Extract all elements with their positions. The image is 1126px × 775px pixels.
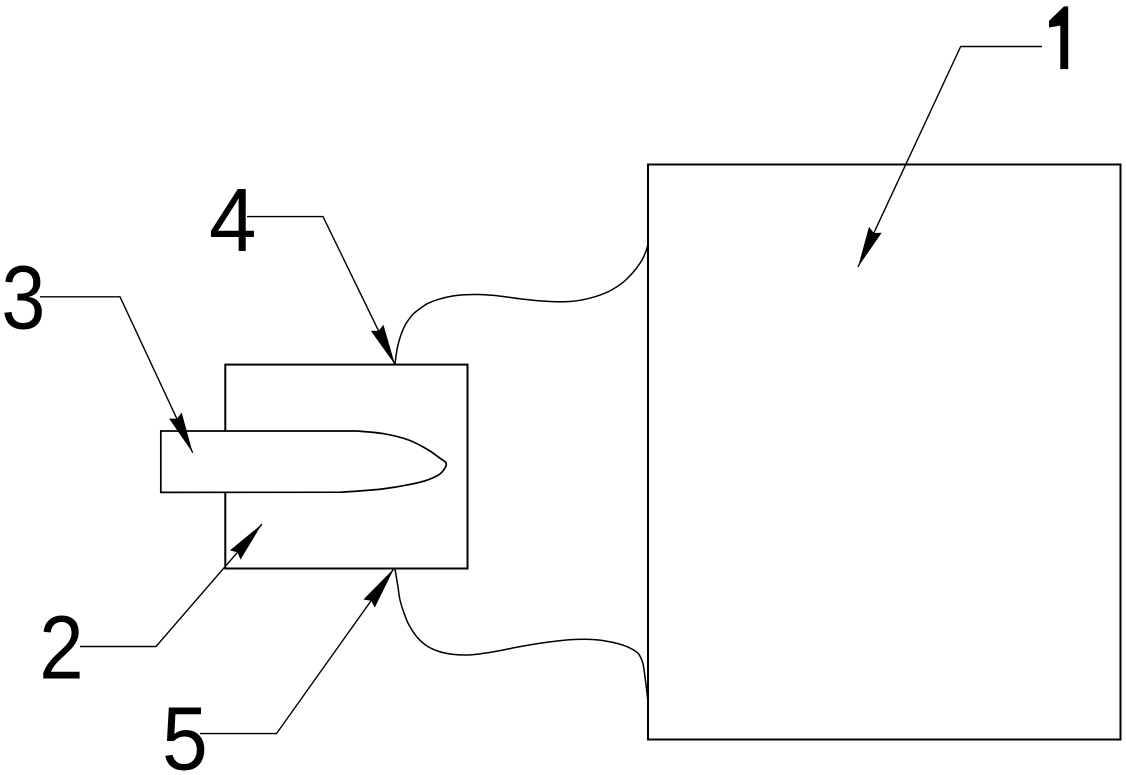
svg-text:4: 4 [209,170,256,271]
svg-text:2: 2 [39,598,83,699]
svg-text:5: 5 [162,689,208,775]
svg-text:3: 3 [1,247,45,348]
